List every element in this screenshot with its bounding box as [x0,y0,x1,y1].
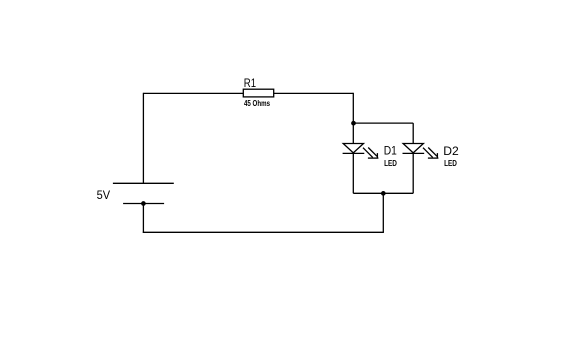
wire D1 cathode lead [352,153,354,193]
wire battery negative to bottom return [142,204,144,233]
LED D2 [403,144,439,159]
svg-text:D2: D2 [443,144,459,158]
svg-text:D1: D1 [384,144,397,158]
svg-text:LED: LED [444,158,457,168]
wire top horizontal from battery positive to LED branch [143,92,353,94]
wire D2 anode lead [412,123,414,143]
svg-text:LED: LED [384,158,397,168]
resistor R1 [243,89,273,97]
wire bottom return [143,231,384,233]
wire LED top rail [353,122,413,124]
LED D1 [343,144,379,159]
junction dot bottom node [381,191,386,196]
junction dot top node [351,121,356,126]
svg-text:R1: R1 [244,76,257,90]
junction dot battery negative [141,201,146,206]
battery plate positive [113,182,174,184]
wire D2 cathode lead [412,153,414,193]
wire LED bottom rail [353,192,413,194]
svg-text:45 Ohms: 45 Ohms [244,98,270,108]
wire down from LED bottom node [382,193,384,232]
wire D1 anode lead [352,123,354,143]
wire left vertical battery positive riser [142,93,144,184]
battery plate negative [123,203,164,205]
svg-text:5V: 5V [97,188,111,202]
wire right vertical down to LED top node [352,93,354,123]
